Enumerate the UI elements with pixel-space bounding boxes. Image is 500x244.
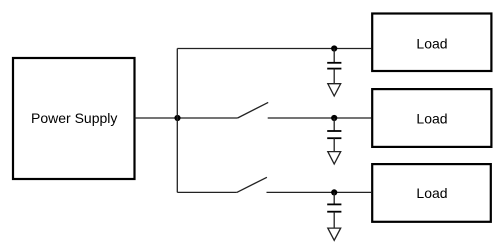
capacitor C2: [327, 118, 341, 138]
svg-text:Load: Load: [416, 36, 447, 52]
wire: top branch: [177, 48, 371, 50]
node: bus junction: [174, 115, 180, 121]
wire: vertical bus: [176, 49, 178, 193]
switch S1 (middle branch): [238, 102, 269, 118]
switch S2 (bottom branch): [237, 177, 267, 192]
Load box 2 (middle): [372, 89, 491, 147]
ground (middle): [328, 138, 341, 164]
wire: middle branch right: [268, 117, 372, 119]
wire: bottom branch left: [177, 191, 237, 193]
capacitor C3: [327, 192, 341, 211]
ground (bottom): [328, 212, 341, 241]
Load box 1 (top): [372, 14, 491, 72]
svg-text:Power Supply: Power Supply: [31, 110, 117, 126]
wire: bottom branch right: [267, 191, 372, 193]
svg-text:Load: Load: [416, 110, 447, 126]
svg-text:Load: Load: [416, 185, 447, 201]
wire: bus junction to middle switch: [177, 117, 237, 119]
capacitor C1: [327, 49, 341, 69]
ground (top): [328, 69, 341, 96]
node: middle branch junction: [331, 115, 337, 121]
node: bottom branch junction: [331, 189, 337, 195]
wire: supply output to bus junction: [135, 117, 178, 119]
node: top branch junction: [331, 45, 337, 51]
Load box 3 (bottom): [372, 164, 491, 222]
Power Supply box: [13, 58, 135, 179]
